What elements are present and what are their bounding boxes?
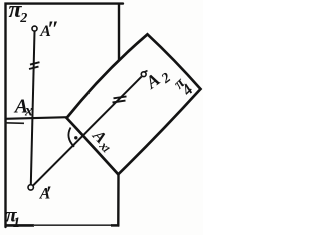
label A2 rotated	[141, 69, 174, 93]
plane pi4 parallelogram	[67, 34, 201, 174]
svg-text:2: 2	[19, 10, 27, 26]
point A2	[141, 71, 147, 77]
projection line A'-A2	[33, 77, 141, 186]
svg-text:x: x	[24, 103, 33, 120]
label Ax	[13, 96, 33, 120]
fold line double stroke	[5, 122, 25, 125]
svg-text:′: ′	[46, 181, 52, 205]
plane pi2/pi1 outer frame	[6, 4, 124, 227]
projection line A''-A'	[31, 32, 35, 185]
label A''	[39, 16, 59, 41]
tick marks on A''-A' line	[29, 62, 40, 69]
label pi4 rotated	[170, 74, 196, 100]
right angle dot	[74, 136, 77, 139]
speck	[88, 92, 90, 94]
label Ax1 rotated	[89, 125, 113, 156]
label pi1	[6, 205, 21, 231]
point A''	[32, 26, 37, 31]
label A'	[39, 181, 52, 205]
right angle arc at A_x1	[68, 128, 74, 147]
bottom border left segment	[5, 224, 35, 227]
point A'	[28, 185, 33, 190]
bottom border right segment	[111, 224, 119, 227]
fold line x-axis pi1/pi2	[5, 117, 68, 119]
label pi2	[9, 0, 28, 26]
svg-text:1: 1	[13, 215, 20, 231]
svg-text:″: ″	[47, 16, 59, 41]
bottom border middle segment	[33, 224, 112, 226]
tick marks on A'-A2 line	[113, 96, 127, 102]
